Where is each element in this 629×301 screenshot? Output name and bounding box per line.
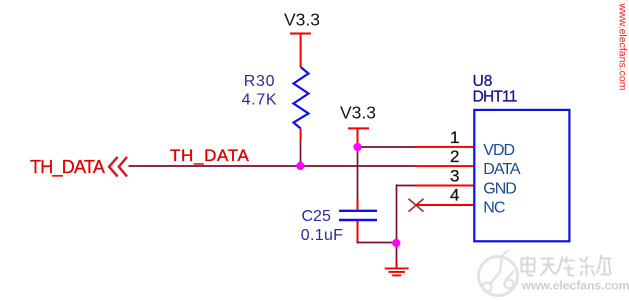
svg-text:www.elecfans.com: www.elecfans.com: [617, 3, 629, 91]
junction dot at ground net: [392, 239, 400, 247]
svg-text:www.elecfans.com: www.elecfans.com: [521, 279, 629, 293]
resistor R30 bottom pin: [300, 129, 302, 141]
wire pin3 vertical down to ground junction: [396, 184, 398, 243]
power V3.3 top bar symbol: [290, 34, 311, 68]
junction dot at V3.3 / pin1: [353, 143, 361, 151]
wire junction down toward ground: [396, 243, 398, 262]
svg-text:V3.3: V3.3: [340, 103, 376, 123]
wire R30 to junction: [300, 140, 302, 167]
svg-text:DHT11: DHT11: [473, 88, 517, 105]
capacitor C25 bottom lead: [357, 221, 359, 243]
watermark logo circle: [479, 250, 518, 295]
junction dot at R30 / TH_DATA: [296, 162, 304, 170]
wire pin1 from V3.3 junction: [358, 146, 415, 148]
svg-text:TH_DATA: TH_DATA: [170, 146, 249, 165]
power V3.3 second bar symbol: [348, 128, 369, 147]
wire pin3 horizontal: [397, 185, 415, 187]
svg-text:V3.3: V3.3: [284, 10, 320, 30]
resistor R30 zigzag body: [294, 67, 309, 129]
wire vertical V3.3 junction down to capacitor: [357, 147, 359, 201]
svg-text:1: 1: [450, 128, 459, 147]
svg-text:R30: R30: [244, 73, 275, 90]
no-connect X on pin 4: [409, 199, 424, 212]
IC U8 DHT11 body rectangle: [474, 110, 569, 241]
svg-text:3: 3: [450, 166, 459, 185]
pin 2 line: [415, 165, 474, 167]
wire capacitor bottom to ground junction: [357, 242, 397, 244]
svg-text:4.7K: 4.7K: [242, 92, 278, 109]
svg-text:NC: NC: [483, 200, 505, 217]
pin 3 line: [415, 185, 474, 187]
svg-text:2: 2: [450, 147, 459, 166]
capacitor C25 top lead: [357, 200, 359, 210]
capacitor C25 plates: [339, 211, 377, 220]
svg-text:0.1uF: 0.1uF: [301, 227, 343, 244]
port TH_DATA chevron arrows: [109, 157, 127, 177]
svg-text:VDD: VDD: [483, 142, 514, 159]
svg-text:GND: GND: [483, 180, 516, 197]
svg-text:TH_DATA: TH_DATA: [30, 157, 105, 178]
ground symbol: [385, 262, 409, 275]
svg-text:DATA: DATA: [483, 161, 521, 178]
pin 4 line: [416, 204, 474, 206]
watermark chinese characters: [522, 255, 612, 276]
svg-text:C25: C25: [302, 208, 331, 225]
svg-text:4: 4: [450, 186, 459, 205]
pin 1 line: [415, 146, 474, 148]
wire main horizontal TH_DATA to pin2: [129, 165, 415, 167]
